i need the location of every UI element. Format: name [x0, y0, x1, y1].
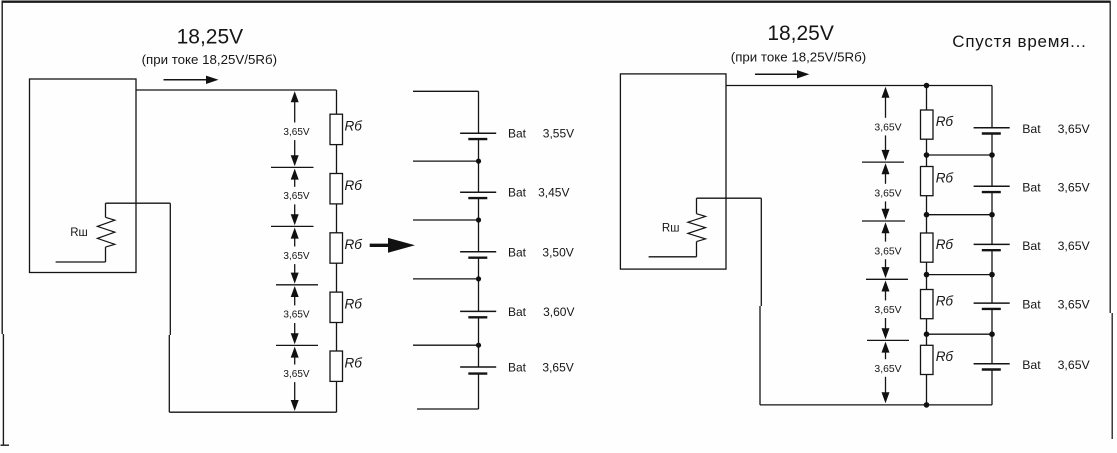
svg-text:Rб: Rб — [345, 296, 363, 311]
svg-text:3,65V: 3,65V — [1058, 298, 1091, 312]
svg-text:Rш: Rш — [70, 227, 88, 239]
svg-text:3,65V: 3,65V — [874, 189, 901, 200]
svg-text:3,60V: 3,60V — [543, 305, 574, 319]
svg-text:3,65V: 3,65V — [1058, 181, 1091, 195]
svg-text:Rб: Rб — [936, 114, 954, 129]
svg-text:Rб: Rб — [345, 178, 363, 193]
svg-text:18,25V: 18,25V — [767, 22, 834, 45]
svg-text:Bat: Bat — [1022, 298, 1041, 312]
svg-text:Rб: Rб — [936, 170, 954, 185]
svg-text:3,65V: 3,65V — [1058, 239, 1091, 253]
svg-text:3,55V: 3,55V — [543, 127, 574, 141]
svg-text:Rб: Rб — [345, 355, 363, 370]
svg-text:(при токе 18,25V/5Rб): (при токе 18,25V/5Rб) — [142, 52, 277, 67]
svg-text:3,45V: 3,45V — [538, 186, 569, 200]
svg-text:3,50V: 3,50V — [542, 245, 573, 259]
svg-text:3,65V: 3,65V — [874, 246, 901, 257]
svg-text:Bat: Bat — [508, 245, 527, 259]
svg-text:3,65V: 3,65V — [283, 251, 309, 262]
svg-text:3,65V: 3,65V — [874, 123, 901, 134]
svg-text:Rб: Rб — [345, 237, 363, 252]
svg-text:Bat: Bat — [1022, 122, 1041, 136]
svg-text:Спустя время...: Спустя время... — [952, 32, 1086, 51]
svg-text:Bat: Bat — [1022, 239, 1041, 253]
svg-text:Bat: Bat — [508, 127, 527, 141]
svg-text:3,65V: 3,65V — [1058, 358, 1091, 372]
svg-text:Bat: Bat — [508, 186, 527, 200]
svg-text:3,65V: 3,65V — [874, 364, 901, 375]
svg-text:Rб: Rб — [936, 349, 954, 364]
svg-text:3,65V: 3,65V — [283, 127, 309, 138]
svg-text:Rб: Rб — [936, 293, 954, 308]
svg-text:Bat: Bat — [508, 361, 527, 375]
svg-text:Bat: Bat — [1022, 358, 1041, 372]
svg-text:Bat: Bat — [508, 305, 527, 319]
svg-text:3,65V: 3,65V — [283, 369, 309, 380]
svg-text:3,65V: 3,65V — [874, 305, 901, 316]
svg-text:Rб: Rб — [936, 237, 954, 252]
svg-text:18,25V: 18,25V — [177, 26, 244, 49]
svg-text:3,65V: 3,65V — [1058, 122, 1091, 136]
svg-text:3,65V: 3,65V — [542, 361, 573, 375]
svg-text:(при токе 18,25V/5Rб): (при токе 18,25V/5Rб) — [731, 50, 866, 65]
svg-text:Rб: Rб — [345, 119, 363, 134]
svg-text:Bat: Bat — [1022, 181, 1041, 195]
svg-text:3,65V: 3,65V — [283, 310, 309, 321]
svg-text:3,65V: 3,65V — [283, 191, 309, 202]
svg-text:Rш: Rш — [662, 223, 680, 235]
